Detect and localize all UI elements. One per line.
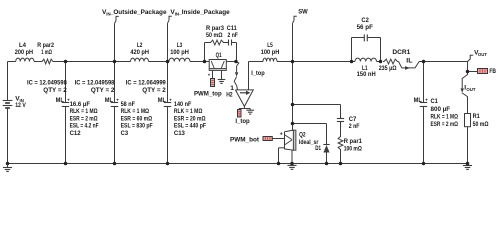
svg-text:SW: SW [298, 9, 308, 16]
svg-text:+: + [169, 97, 172, 102]
svg-text:RLK = 1 MΩ: RLK = 1 MΩ [70, 108, 99, 115]
svg-text:IC = 12.049598: IC = 12.049598 [75, 80, 115, 87]
svg-text:Q2: Q2 [299, 132, 306, 139]
svg-text:ESR = 2 mΩ: ESR = 2 mΩ [70, 115, 99, 122]
svg-text:IL: IL [406, 57, 412, 64]
svg-text:OUT: OUT [466, 87, 475, 92]
svg-text:IC = 12.049598: IC = 12.049598 [27, 80, 67, 87]
svg-text:420 pH: 420 pH [130, 49, 149, 56]
svg-text:ESL = 440 pF: ESL = 440 pF [174, 123, 206, 130]
svg-text:C13: C13 [174, 130, 185, 137]
svg-text:D1: D1 [315, 145, 321, 152]
svg-text:+: + [425, 97, 428, 102]
svg-text:ML: ML [105, 97, 113, 104]
svg-text:1 mΩ: 1 mΩ [41, 49, 52, 56]
svg-text:*: * [208, 74, 210, 80]
svg-text:100 pH: 100 pH [170, 49, 189, 56]
svg-text:ESR = 20 mΩ: ESR = 20 mΩ [174, 115, 206, 122]
svg-text:IC = 12.064999: IC = 12.064999 [126, 80, 166, 87]
svg-text:C2: C2 [361, 17, 369, 24]
svg-text:800 µF: 800 µF [431, 106, 451, 113]
svg-text:Q1: Q1 [216, 52, 222, 59]
svg-text:OUT: OUT [478, 52, 487, 57]
svg-text:140 nF: 140 nF [174, 101, 192, 108]
svg-text:R par1: R par1 [344, 138, 362, 145]
svg-text:58 nF: 58 nF [121, 101, 135, 108]
svg-text:DCR1: DCR1 [392, 49, 410, 56]
svg-text:I_top: I_top [235, 118, 249, 125]
svg-text:2 nF: 2 nF [349, 123, 360, 130]
svg-text:I_top: I_top [251, 70, 265, 77]
svg-text:100 pH: 100 pH [261, 49, 280, 56]
svg-text:16.6 µF: 16.6 µF [70, 101, 90, 108]
svg-text:C1: C1 [431, 98, 439, 105]
svg-text:ESL = 830 pF: ESL = 830 pF [121, 123, 153, 130]
svg-text:C3: C3 [121, 130, 129, 137]
svg-text:ML: ML [56, 97, 64, 104]
svg-text:ESR = 2 mΩ: ESR = 2 mΩ [431, 121, 459, 128]
svg-text:12 V: 12 V [15, 102, 26, 109]
svg-text:PWM_top: PWM_top [194, 90, 222, 97]
svg-text:_Outside_Package: _Outside_Package [109, 9, 167, 16]
svg-text:C12: C12 [70, 130, 81, 137]
svg-text:ML: ML [158, 97, 166, 104]
svg-text:2 nF: 2 nF [228, 32, 238, 39]
svg-text:FB: FB [489, 68, 496, 75]
svg-text:+: + [280, 131, 283, 137]
svg-text:50 mΩ: 50 mΩ [473, 121, 490, 128]
svg-text:R1: R1 [473, 113, 480, 120]
svg-text:150 nH: 150 nH [357, 71, 376, 78]
svg-text:ML: ML [414, 97, 422, 104]
svg-text:QTY = 2: QTY = 2 [43, 87, 67, 94]
svg-text:_Inside_Package: _Inside_Package [177, 9, 230, 16]
svg-text:C7: C7 [349, 116, 357, 123]
svg-text:100 mΩ: 100 mΩ [344, 145, 363, 152]
svg-text:ESL = 4.2 nF: ESL = 4.2 nF [70, 123, 99, 130]
svg-text:235 µΩ: 235 µΩ [379, 65, 397, 72]
svg-text:H2: H2 [226, 92, 233, 99]
svg-text:ESR = 60 mΩ: ESR = 60 mΩ [121, 115, 153, 122]
svg-text:50 mΩ: 50 mΩ [206, 32, 223, 39]
svg-text:QTY = 2: QTY = 2 [142, 87, 166, 94]
svg-text:200 pH: 200 pH [15, 49, 33, 56]
svg-text:RLK = 1 MΩ: RLK = 1 MΩ [174, 108, 203, 115]
svg-text:RLK = 1 MΩ: RLK = 1 MΩ [431, 113, 459, 120]
svg-text:+: + [116, 97, 119, 102]
svg-text:PWM_bot: PWM_bot [230, 137, 260, 144]
svg-text:56 pF: 56 pF [357, 24, 373, 31]
svg-text:RLK = 1 MΩ: RLK = 1 MΩ [121, 108, 150, 115]
svg-text:QTY = 2: QTY = 2 [91, 87, 115, 94]
